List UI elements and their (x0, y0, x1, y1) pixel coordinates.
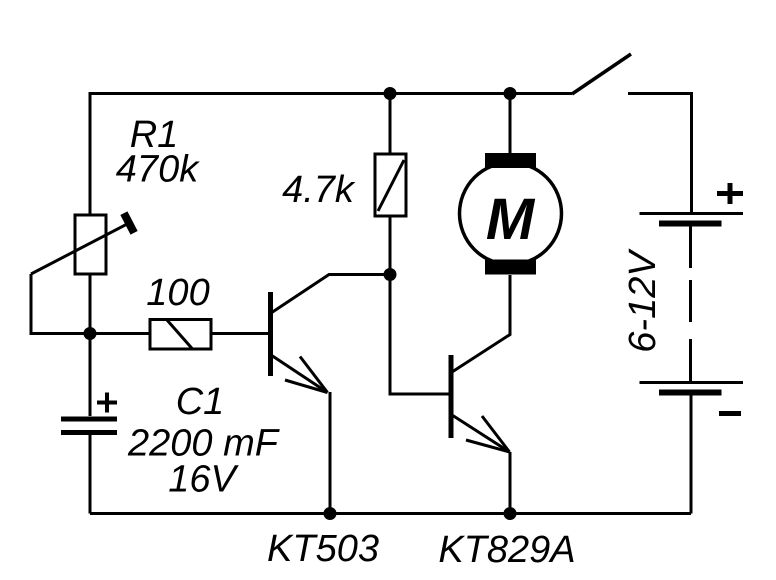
label 470k (116, 149, 200, 191)
wire: top rail from left corner to switch pivot (90, 92, 572, 95)
label M (486, 187, 536, 252)
transistor Q2 emitter with arrow (452, 415, 510, 452)
wire: R1 bottom lead to node A (89, 274, 92, 334)
resistor 100 (150, 320, 211, 350)
wire: right vertical down to battery plus (690, 92, 693, 213)
junction dot: Q1 emitter on bottom rail (324, 507, 337, 520)
svg-text:KT829A: KT829A (438, 529, 575, 571)
wire: node B down and right to base of Q2 (390, 275, 449, 395)
svg-text:470k: 470k (116, 149, 200, 191)
battery GB1 cell 2 short plate (659, 390, 722, 396)
svg-text:4.7k: 4.7k (282, 169, 356, 211)
junction dot: top rail at 4.7k resistor (384, 87, 397, 100)
wire: top rail to motor (509, 94, 512, 155)
wire: node A down to capacitor C1 (89, 334, 92, 417)
svg-text:100: 100 (146, 272, 209, 314)
plus sign at battery (717, 183, 743, 204)
wire: resistor 100 to base of Q1 (211, 332, 268, 335)
battery GB1 cell 2 long plate (640, 381, 744, 384)
label KT829A (438, 529, 575, 571)
label 2200 mF (127, 423, 280, 465)
motor M1 bottom brush (485, 260, 536, 275)
resistor 4.7k (375, 154, 406, 216)
dashed link between battery cells (689, 226, 692, 381)
motor M1 top brush (485, 153, 536, 168)
label 100 (146, 272, 209, 314)
node A junction dot (84, 327, 97, 340)
capacitor C1 top plate (61, 417, 117, 422)
wire: top rail to resistor 4.7k (389, 94, 392, 155)
motor M1 body (460, 163, 562, 265)
transistor Q1 collector lead (271, 275, 390, 314)
wire: resistor 4.7k to node B (389, 216, 392, 275)
svg-text:16V: 16V (168, 459, 239, 501)
wire: capacitor C1 to bottom rail (89, 435, 92, 514)
wire: bottom rail (90, 512, 691, 515)
transistor Q1 emitter with arrow (271, 355, 328, 393)
wire: Q2 emitter down to bottom rail (509, 452, 512, 514)
wire: switch right contact to top right corner (628, 92, 692, 95)
junction dot: top rail at motor (504, 87, 517, 100)
battery GB1 cell 1 short plate (659, 221, 722, 227)
node B junction dot (Q1 collector / Q2 base net) (384, 268, 397, 281)
wire: wiper leg down to node A (31, 274, 90, 334)
wire: node A to resistor 100 (90, 332, 150, 335)
transistor Q2 KT829A base bar (449, 355, 454, 438)
battery GB1 cell 1 long plate (640, 212, 744, 215)
label 6-12V (rotated) (622, 248, 664, 353)
wire: battery minus down to bottom right corner (690, 395, 693, 514)
capacitor C1 bottom plate (61, 430, 117, 435)
wire: left vertical from top rail to R1 (89, 92, 92, 215)
wire: Q1 emitter down to bottom rail (329, 392, 332, 514)
switch SA1 arm (572, 54, 631, 94)
svg-text:KT503: KT503 (267, 528, 379, 570)
junction dot: Q2 emitter on bottom rail (504, 507, 517, 520)
plus sign at capacitor (97, 393, 117, 413)
minus sign at battery (719, 411, 741, 416)
transistor Q2 collector lead to motor (452, 275, 510, 372)
svg-text:M: M (486, 187, 536, 252)
svg-text:6-12V: 6-12V (622, 248, 664, 353)
transistor Q1 KT503 base bar (268, 292, 273, 376)
label R1 (130, 114, 179, 156)
label 16V (168, 459, 239, 501)
potentiometer R1 body (75, 215, 106, 274)
label KT503 (267, 528, 379, 570)
label 4.7k (282, 169, 356, 211)
wiper arrow of R1 (31, 213, 134, 274)
svg-text:C1: C1 (176, 381, 225, 423)
label C1 (176, 381, 225, 423)
